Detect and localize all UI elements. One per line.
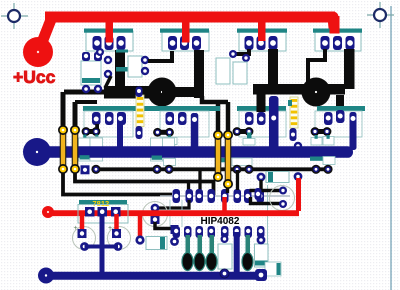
- light column outlines: [170, 200, 182, 227]
- Q2 tab bar: [160, 29, 209, 33]
- IC HIP4082 pin row: [173, 189, 265, 203]
- black trace from yellow pad 63 to IC: [63, 171, 172, 195]
- power node circle right: [302, 78, 331, 107]
- red stub to Q1 drain: [106, 16, 114, 43]
- fiducial crosshair top-right: [367, 2, 394, 28]
- transil T2 body with bands: [288, 97, 302, 150]
- GND bus left pad: [23, 138, 51, 166]
- red feed to C2: [114, 214, 119, 232]
- small footprint right of bus end: [265, 262, 281, 276]
- thick black source bar left: [104, 86, 163, 99]
- small film cap C bottom left: [146, 222, 179, 250]
- svg-text:HIP4082: HIP4082: [201, 216, 240, 227]
- red vertical from IC pin5: [222, 197, 227, 211]
- Q3 tab bar: [237, 29, 287, 33]
- Q4 tab bar: [313, 29, 362, 33]
- black L from Q3 pad1: [236, 49, 249, 54]
- +Ucc pad: [23, 37, 53, 67]
- ring pad on GND bus below R: [220, 269, 229, 278]
- Q1 tab bar: [84, 29, 133, 33]
- svg-text:+: +: [74, 225, 78, 232]
- thick black bar from Q4 right pad: [344, 49, 355, 89]
- thick black bar into pad Q1-3: [115, 50, 125, 92]
- Q4 pads: [321, 36, 355, 50]
- power node circle left: [148, 78, 177, 107]
- C1 - pad: [80, 242, 89, 251]
- black stub F1 pad to jumper: [95, 124, 99, 131]
- Q1 footprint outline: [86, 31, 133, 51]
- lower footprint outline Q2: [160, 111, 209, 137]
- red drop to ring pad: [138, 214, 143, 238]
- +Ucc red bus trace: [39, 12, 335, 51]
- below-bus teal bars and boxes: [80, 155, 336, 165]
- Q3 pads: [245, 36, 278, 50]
- light bottom-layer line: [160, 195, 290, 197]
- film capacitor C near IC right: [257, 172, 303, 183]
- thick black bar Q3 right pad down: [268, 49, 278, 91]
- electrolytic cap C5 outline: [143, 202, 168, 227]
- gate resistor pads near Q1: [104, 56, 112, 88]
- bottom pad row: [173, 226, 265, 238]
- teal stubs below jumper pads: [83, 135, 86, 139]
- black drop from Q2 source: [202, 96, 228, 131]
- transil T1 body with bands: [136, 87, 145, 140]
- yellow pads: [58, 125, 233, 189]
- red bus right corner drop: [330, 16, 340, 34]
- thick blue drop pad6 to bus: [234, 232, 240, 274]
- electrolytic cap outline circle: [270, 186, 295, 211]
- blue link C1- to C2-: [85, 245, 119, 249]
- 7812 body outline: [78, 205, 128, 224]
- black tail to Q3 lower pad: [257, 94, 266, 112]
- black L from cap left pad: [250, 180, 284, 191]
- long teal bar row B segment 2: [237, 106, 286, 111]
- GND mid bus: [37, 146, 353, 158]
- black L from Q4 pad1: [308, 49, 325, 82]
- C2 - pad: [114, 242, 123, 251]
- thin vertical outline line: [267, 185, 269, 262]
- diode D1 body: [81, 61, 101, 85]
- wide source columns to GND bus: [117, 112, 123, 150]
- red stub to Q3 drain: [258, 16, 266, 41]
- thick black bar from circle to Q2 pad: [194, 50, 204, 98]
- resistor R upper (left of transil): [128, 56, 142, 77]
- yellow wire jumper 2: [72, 130, 79, 169]
- black above IC pin6: [236, 170, 239, 190]
- ringed pads on L1: [81, 165, 333, 175]
- Q2 pads: [168, 36, 201, 50]
- yellow wire jumper 1: [60, 130, 67, 169]
- C1 + pad: [78, 229, 87, 238]
- vertical footprint boxes crossing bus F1: [79, 138, 91, 161]
- jumper dumbbells row y131: [82, 127, 101, 136]
- small boxes under dumbbells: [247, 133, 252, 140]
- small boxes between Q3 pads: [216, 58, 230, 84]
- yellow wire jumper 4: [225, 135, 232, 184]
- diode strips with elliptical pads: [182, 235, 253, 271]
- svg-text:+: +: [108, 225, 112, 232]
- electrolytic C2 outline: [108, 227, 131, 250]
- 7812 regulator tab: [79, 200, 127, 205]
- lower footprint outline Q3: [239, 111, 286, 137]
- long black jumper line L1: [96, 167, 328, 171]
- red stub to Q2 drain: [182, 16, 190, 43]
- long teal bar row B segment 1: [83, 106, 220, 111]
- lower pads rows: [92, 110, 345, 125]
- Q2 footprint outline: [162, 31, 209, 51]
- small pad left of cap circle: [255, 188, 262, 200]
- white box under F2 jumper: [165, 138, 178, 145]
- svg-text:+Ucc: +Ucc: [13, 67, 56, 87]
- black trace from yellow pad 75 to IC: [75, 171, 214, 195]
- diode body bottom right: [255, 244, 269, 267]
- board edge line: [390, 6, 392, 290]
- C2 + pad: [112, 229, 121, 238]
- white box under F1 jumper: [90, 137, 103, 144]
- thick black source bar right: [253, 84, 345, 95]
- vertical footprint boxes crossing bus F2: [151, 138, 163, 161]
- Q3 footprint outline: [239, 31, 286, 51]
- lower footprint outline Q4: [315, 111, 362, 137]
- black jog below IC pin2: [157, 200, 189, 208]
- red vertical from film cap to bottom red rail: [296, 178, 301, 211]
- long teal bar row B segment 3: [317, 106, 365, 111]
- black trace network left of Q1: [63, 92, 105, 129]
- black drop to pad below right circle: [336, 95, 344, 117]
- electrolytic C1 outline: [73, 227, 96, 250]
- Q1 pads: [93, 36, 126, 50]
- svg-text:7812: 7812: [93, 199, 110, 208]
- 7812 pads: [85, 207, 121, 217]
- Q4 footprint outline: [315, 32, 361, 51]
- black from IC pin7 to cap: [251, 197, 284, 204]
- D1 pads: [82, 52, 102, 93]
- lower footprint outline Q1: [84, 111, 133, 137]
- bottom red rail: [48, 210, 299, 216]
- yellow wire jumper 3: [215, 135, 222, 177]
- black link Q2 pad1 down to resistor: [148, 51, 172, 61]
- blue drop 7812 middle pin to GND bottom bus: [100, 214, 105, 275]
- resistor body bottom: [218, 244, 232, 269]
- GND bottom bus: [46, 272, 258, 280]
- teal tab marks over Q1 gate column: [116, 50, 128, 53]
- red feed to C1: [80, 214, 85, 232]
- fiducial crosshair top-left: [1, 3, 28, 29]
- red supply pad left: [42, 206, 54, 218]
